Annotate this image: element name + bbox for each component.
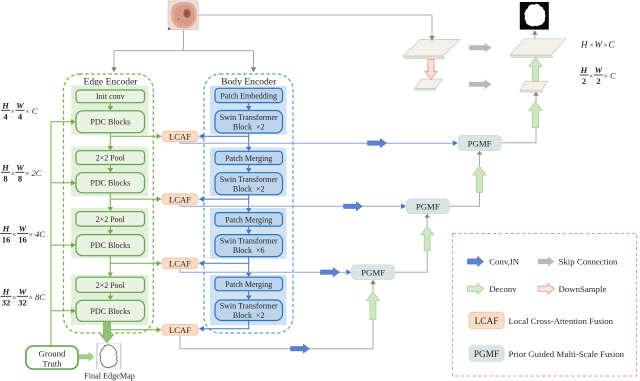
svg-text:Skip Connection: Skip Connection	[559, 257, 618, 267]
wire: body output down-left to LCAF4	[199, 321, 249, 332]
svg-text:16: 16	[18, 235, 27, 245]
wire: split down into edge encoder	[111, 51, 116, 73]
svg-text:Init conv: Init conv	[96, 92, 125, 101]
svg-text:H: H	[2, 286, 10, 296]
swin transformer block x6 stage-3 box	[215, 235, 283, 257]
legend PGMF chip	[469, 346, 504, 362]
svg-text:PDC Blocks: PDC Blocks	[90, 307, 130, 316]
edge stage-1 group background	[71, 86, 149, 136]
svg-text:DownSample: DownSample	[559, 284, 607, 294]
wire: split down into body encoder	[251, 51, 256, 73]
svg-text:2C: 2C	[32, 168, 42, 178]
patch merging 2 box	[215, 213, 283, 227]
svg-text:8C: 8C	[35, 292, 45, 302]
svg-text:4: 4	[3, 111, 8, 121]
svg-text:H: H	[1, 100, 9, 110]
PDC blocks 2 box	[76, 173, 145, 193]
svg-text:32: 32	[18, 297, 27, 307]
svg-text:PGMF: PGMF	[416, 202, 440, 212]
init conv box	[76, 90, 145, 103]
body stage-4 group background	[210, 275, 287, 325]
deconv block arrow under PGMF1	[473, 166, 486, 193]
wire: body vertical swin1 to patch merging1 with LCAF branch	[246, 133, 252, 151]
svg-text:2×2 Pool: 2×2 Pool	[96, 281, 126, 290]
wire: PGMF1 output up into small parallelogram	[501, 92, 539, 143]
body stage-3 group background	[210, 208, 287, 259]
patch embedding box	[215, 88, 283, 102]
node label H x W x C top right	[580, 40, 616, 50]
svg-text:H: H	[2, 224, 10, 234]
downsample block arrow between left parallelograms	[425, 60, 437, 80]
svg-text:C: C	[609, 40, 616, 50]
svg-text:Patch Merging: Patch Merging	[225, 154, 272, 163]
PGMF 1 fusion block	[458, 135, 501, 150]
conv block arrow on LCAF2 line	[344, 202, 363, 211]
edge encoder thick output arrow down	[100, 322, 114, 343]
svg-text:×: ×	[12, 293, 16, 302]
legend LCAF chip	[469, 312, 504, 329]
skip connection block arrow lower	[469, 79, 492, 89]
wire: body vertical swin3 to patch merging3 with LCAF branch	[246, 257, 252, 277]
final edgemap image	[97, 344, 121, 370]
svg-text:×: ×	[29, 293, 33, 302]
wire: right parallelogram up to mask	[532, 30, 537, 38]
svg-text:C: C	[32, 106, 38, 116]
svg-text:PGMF: PGMF	[474, 350, 499, 360]
wire: edge vertical pool1 to PDC2	[108, 165, 114, 173]
svg-text:Prior Guided Multi-Scale Fusio: Prior Guided Multi-Scale Fusion	[509, 349, 625, 359]
right small feature-map parallelogram	[520, 81, 548, 92]
svg-text:Truth: Truth	[42, 359, 62, 369]
node label H/2 x W/2 x C right	[580, 65, 617, 86]
svg-text:H: H	[1, 162, 9, 172]
wire: feedback branch to PDC1	[51, 119, 76, 125]
2x2 pool 2 box	[76, 212, 145, 226]
svg-text:2×2 Pool: 2×2 Pool	[96, 215, 126, 224]
wire: input image right to prior map	[198, 15, 434, 41]
wire: body vertical patch merging1 to swin2	[246, 165, 252, 173]
legend conv arrow	[468, 256, 484, 266]
node label H/32 x W/32 x 8C	[1, 286, 46, 307]
right large feature-map parallelogram	[510, 39, 566, 58]
svg-text:2: 2	[582, 76, 586, 86]
PDC blocks 3 box	[76, 235, 145, 256]
svg-text:Block ×2: Block ×2	[233, 122, 265, 131]
deconv block arrow PGMF1 to small parallelogram	[529, 102, 542, 128]
2x2 pool 3 box	[76, 277, 145, 292]
deconv block arrow under PGMF2	[421, 226, 434, 251]
node label H/8 x W/8 x 2C	[1, 162, 42, 183]
wire: edge vertical PDC2 to pool2	[108, 193, 114, 212]
swin transformer block x2 stage-1 box	[215, 111, 283, 134]
node label H/16 x W/16 x 4C	[1, 224, 46, 245]
body stage-2 group background	[210, 148, 287, 197]
edge stage-2 group background	[71, 147, 149, 197]
left small feature-map parallelogram	[414, 79, 442, 90]
svg-text:C: C	[610, 71, 616, 81]
wire: edge vertical PDC3 to pool3	[108, 256, 114, 277]
wire: blue branch swin3 to LCAF3	[199, 261, 249, 267]
wire: PGMF3 output up into PGMF2	[395, 214, 430, 272]
legend skip arrow	[538, 256, 554, 266]
svg-text:W: W	[16, 100, 25, 110]
svg-text:2×2 Pool: 2×2 Pool	[96, 154, 126, 163]
svg-text:×: ×	[589, 72, 593, 81]
svg-text:Swin Transformer: Swin Transformer	[220, 302, 278, 311]
svg-text:×: ×	[11, 169, 15, 178]
wire: body vertical swin2 to patch merging2 with LCAF branch	[246, 195, 252, 213]
body stage-1 group background	[210, 86, 287, 135]
conv block arrow on LCAF4 line	[291, 344, 310, 353]
svg-text:PDC Blocks: PDC Blocks	[90, 118, 130, 127]
wire: ground truth feedback vertical	[50, 122, 52, 346]
wire: feedback branch to PDC3	[51, 242, 76, 248]
legend downsample arrow	[538, 284, 554, 294]
svg-text:Patch Embedding: Patch Embedding	[220, 91, 277, 100]
svg-text:×: ×	[604, 72, 608, 81]
svg-text:×: ×	[25, 107, 29, 116]
svg-text:PGMF: PGMF	[468, 138, 492, 148]
svg-text:×: ×	[590, 41, 594, 50]
svg-text:LCAF: LCAF	[169, 194, 191, 204]
svg-text:H: H	[580, 65, 588, 75]
svg-text:×: ×	[12, 230, 16, 239]
PDC blocks 1 box	[76, 111, 145, 133]
svg-text:32: 32	[2, 297, 11, 307]
wire: LCAF1 output to PGMF1	[180, 140, 458, 146]
svg-text:W: W	[595, 65, 604, 75]
patch merging 3 box	[215, 277, 283, 291]
legend container	[453, 234, 637, 377]
wire: body vertical patch merging2 to swin3	[246, 226, 252, 234]
svg-text:Local Cross-Attention Fusion: Local Cross-Attention Fusion	[509, 316, 614, 326]
svg-text:PGMF: PGMF	[361, 268, 385, 278]
svg-text:4: 4	[18, 111, 23, 121]
wire: PGMF2 output up into PGMF1	[450, 151, 483, 207]
svg-text:×: ×	[604, 41, 608, 50]
wire: feedback branch to PDC4	[51, 308, 76, 314]
wire: edge vertical init conv to PDC1	[108, 103, 114, 111]
svg-text:W: W	[16, 162, 25, 172]
wire: edge vertical pool3 to PDC4	[108, 292, 114, 300]
svg-text:LCAF: LCAF	[169, 325, 191, 335]
svg-text:Block ×6: Block ×6	[233, 246, 265, 255]
PGMF 3 fusion block	[352, 265, 395, 280]
svg-text:8: 8	[18, 173, 23, 183]
svg-text:Patch Merging: Patch Merging	[225, 280, 272, 289]
svg-text:Swin Transformer: Swin Transformer	[220, 113, 278, 122]
svg-text:LCAF: LCAF	[475, 317, 499, 327]
svg-text:W: W	[19, 224, 28, 234]
edge stage-3 group background	[71, 208, 149, 258]
wire: blue branch swin2 to LCAF2	[199, 196, 249, 202]
svg-text:W: W	[19, 286, 28, 296]
wire: edge vertical PDC1 to pool1 with LCAF branch	[108, 133, 114, 151]
conv block arrow on LCAF3 line	[321, 268, 340, 277]
left large feature-map parallelogram	[403, 39, 460, 58]
2x2 pool 1 box	[76, 151, 145, 165]
wire: green branch PDC1 to LCAF1	[110, 134, 161, 140]
wire: edge vertical pool2 to PDC3	[108, 226, 114, 234]
svg-text:4C: 4C	[35, 229, 45, 239]
wire: green branch PDC2 to LCAF2	[110, 196, 161, 202]
svg-text:×: ×	[29, 230, 33, 239]
wire: LCAF4 output up into PGMF3	[180, 280, 376, 349]
predicted mask image	[520, 2, 549, 30]
svg-text:×: ×	[11, 107, 15, 116]
svg-text:Block ×2: Block ×2	[233, 184, 265, 193]
svg-text:Block ×2: Block ×2	[233, 311, 265, 320]
PGMF 2 fusion block	[406, 199, 449, 214]
edge encoder dashed container	[64, 74, 154, 333]
LCAF 1 fusion block	[162, 131, 198, 142]
LCAF 4 fusion block	[162, 325, 198, 336]
svg-text:PDC Blocks: PDC Blocks	[90, 179, 130, 188]
swin transformer block x2 stage-2 box	[215, 173, 283, 195]
wire: body vertical patch merging3 to swin4	[246, 291, 252, 300]
PDC blocks 4 box	[76, 300, 145, 321]
svg-text:LCAF: LCAF	[169, 132, 191, 142]
body encoder dashed container	[204, 74, 293, 333]
svg-text:Patch Merging: Patch Merging	[225, 215, 272, 224]
swin transformer block x2 stage-4 box	[215, 300, 283, 321]
wire: blue branch swin1 to LCAF1	[199, 134, 249, 140]
node label H/4 x W/4 x C	[1, 100, 38, 121]
deconv block arrow small to large parallelogram	[529, 58, 542, 82]
svg-text:×: ×	[25, 169, 29, 178]
conv block arrow on LCAF1 line	[368, 139, 387, 148]
LCAF 2 fusion block	[162, 194, 198, 205]
svg-text:Swin Transformer: Swin Transformer	[220, 237, 278, 246]
svg-text:Ground: Ground	[39, 349, 66, 359]
svg-text:LCAF: LCAF	[169, 259, 191, 269]
wire: input image down to split	[114, 30, 254, 51]
svg-text:Final EdgeMap: Final EdgeMap	[84, 372, 135, 381]
wire: LCAF2 output to PGMF2	[180, 204, 406, 210]
wire: feedback branch to PDC2	[51, 180, 76, 186]
LCAF 3 fusion block	[162, 258, 198, 269]
patch merging 1 box	[215, 151, 283, 164]
wire: LCAF3 output to PGMF3	[180, 269, 351, 276]
svg-text:8: 8	[3, 173, 8, 183]
svg-text:Conv,IN: Conv,IN	[489, 257, 520, 267]
svg-text:16: 16	[2, 235, 11, 245]
ground truth to edgemap block arrow	[79, 352, 95, 362]
wire: green branch PDC3 to LCAF3	[110, 261, 161, 267]
svg-text:PDC Blocks: PDC Blocks	[90, 241, 130, 250]
edge stage-4 group background	[71, 275, 149, 325]
wire: green branch edge output to LCAF4	[110, 327, 161, 333]
legend deconv arrow	[468, 284, 484, 294]
ground truth box	[26, 346, 78, 369]
skip connection block arrow upper	[469, 43, 492, 53]
deconv block arrow under PGMF3	[367, 292, 380, 320]
input dermoscopy image	[168, 1, 198, 30]
svg-text:Swin Transformer: Swin Transformer	[220, 175, 278, 184]
svg-text:H: H	[580, 40, 588, 50]
wire: body vertical patch embedding to swin1	[246, 103, 252, 111]
svg-text:Deconv: Deconv	[489, 284, 517, 294]
svg-text:2: 2	[596, 76, 600, 86]
svg-text:W: W	[595, 40, 604, 50]
